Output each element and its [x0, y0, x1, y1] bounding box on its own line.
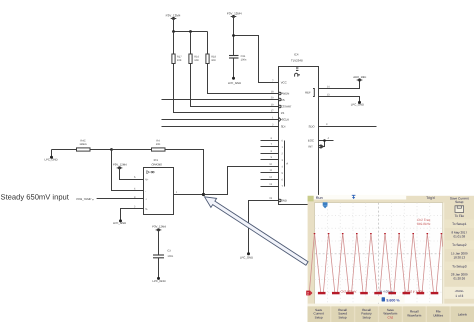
- svg-text:P3V_12M4: P3V_12M4: [166, 14, 181, 18]
- button recall saved setup: [331, 306, 354, 322]
- svg-text:Setup: Setup: [315, 315, 323, 319]
- pin numbers AIN: [269, 137, 272, 186]
- svg-text:VCC: VCC: [281, 80, 287, 84]
- svg-text:Trig'd: Trig'd: [426, 196, 434, 200]
- power ADC_REF: [353, 75, 366, 82]
- oscilloscope screenshot: [306, 195, 474, 322]
- button recall waveform: [403, 306, 426, 322]
- svg-text:Setup: Setup: [362, 315, 370, 319]
- svg-text:LPC_GND: LPC_GND: [240, 256, 253, 260]
- ADC IC4 TLV2548: [279, 52, 321, 204]
- ground LPC_GND at IC4 GND: [240, 252, 253, 259]
- wire GND pin to ground: [249, 201, 279, 254]
- ground LPC_GND at R4C: [44, 150, 57, 162]
- wire R18 to PWDN pin: [208, 64, 279, 94]
- wire CS net: [162, 99, 279, 101]
- svg-text:Steady 650mV input: Steady 650mV input: [1, 193, 70, 202]
- op-amp IC1 OPA340: [134, 158, 178, 215]
- channel 2 marker: [306, 291, 312, 296]
- svg-text:P3V_12M4: P3V_12M4: [152, 224, 166, 228]
- menu to file with icon: [455, 206, 465, 218]
- svg-text:Setup: Setup: [339, 315, 347, 319]
- pin bubble CSTART: [279, 105, 281, 107]
- resistor R17 10K: [172, 32, 182, 64]
- pin bubble PWDN: [279, 92, 281, 94]
- button file utilities: [427, 306, 450, 322]
- trigger level icon: [352, 195, 356, 199]
- svg-text:Waveform: Waveform: [407, 313, 421, 317]
- node junction R4C/R4/inverting input: [110, 148, 113, 151]
- pin bubble GND: [279, 199, 281, 201]
- svg-text:01:20:26: 01:20:26: [453, 276, 465, 280]
- svg-text:IC1: IC1: [154, 158, 159, 162]
- wire op-amp output: [174, 194, 204, 196]
- svg-text:-: -: [145, 189, 146, 193]
- wire R16 to CSTART pin: [191, 64, 279, 107]
- ground LPC_GND at op-amp V-: [113, 219, 126, 225]
- svg-text:V-: V-: [145, 207, 148, 211]
- power P3V_12M4 for C3: [152, 224, 166, 231]
- svg-text:1 of 3: 1 of 3: [455, 294, 463, 298]
- resistor R4C 1MEG: [52, 140, 112, 151]
- grid dotted lines: [315, 203, 443, 306]
- svg-text:10K: 10K: [156, 143, 161, 146]
- svg-text:P3V_12M4: P3V_12M4: [227, 12, 242, 16]
- analog input stub wires AIN0-AIN7: [261, 141, 279, 187]
- REF bracket: [313, 89, 314, 97]
- waveform ch2 triangles: [309, 233, 442, 292]
- svg-text:-more-: -more-: [455, 289, 464, 293]
- svg-text:2: 2: [307, 292, 309, 296]
- wire R17 to FS pin: [174, 64, 279, 113]
- wire VCC branch: [234, 17, 279, 83]
- menu to setup1: [444, 220, 474, 228]
- wire V+ supply: [120, 168, 144, 180]
- svg-text:10K: 10K: [211, 59, 216, 62]
- ground LPC_GND at REF-: [351, 101, 364, 107]
- button save current setup: [308, 306, 331, 322]
- resistor R4 10K: [112, 140, 166, 151]
- svg-text:LPC_GND: LPC_GND: [44, 157, 57, 161]
- svg-text:18:30:13: 18:30:13: [453, 255, 465, 259]
- wire SDI net: [162, 126, 279, 128]
- svg-text:LPC_GND: LPC_GND: [113, 221, 126, 225]
- resistor R16 10K: [189, 32, 200, 64]
- svg-text:C3: C3: [167, 250, 171, 253]
- svg-text:Ch2: Ch2: [388, 315, 394, 319]
- svg-text:100n: 100n: [167, 255, 173, 258]
- svg-text:To Setup2: To Setup2: [452, 243, 467, 247]
- capacitor C21 100n: [229, 55, 247, 61]
- svg-text:9.600 %: 9.600 %: [386, 299, 400, 303]
- menu more pager: [444, 287, 474, 299]
- callout arrow to output node: [205, 197, 309, 265]
- svg-text:ADC_REF: ADC_REF: [353, 75, 366, 79]
- wire feedback to output node: [165, 150, 204, 195]
- wire SDO: [319, 126, 377, 128]
- open-drain triangle INT: [321, 145, 323, 148]
- menu to setup3: [444, 262, 474, 270]
- node junction VCC/C21: [232, 34, 235, 37]
- waveform baseline bars: [314, 233, 443, 294]
- ground LPC_GND below C3: [152, 277, 165, 283]
- svg-text:Ch2 500mV: Ch2 500mV: [341, 290, 357, 294]
- button recall factory setup: [355, 306, 378, 322]
- svg-text:A: A: [286, 162, 288, 166]
- svg-text:SDO: SDO: [309, 125, 316, 129]
- svg-text:Run: Run: [316, 196, 323, 200]
- svg-text:10K: 10K: [194, 59, 199, 62]
- pin bubble CS: [279, 98, 281, 100]
- power P3V_12M4 rail for pull-ups: [166, 14, 181, 20]
- svg-text:LPC_GND: LPC_GND: [152, 279, 165, 283]
- wire power rail: [174, 19, 208, 32]
- svg-text:To File: To File: [455, 214, 465, 218]
- input label PCB_TEMP: [76, 197, 143, 201]
- wire op-amp V-: [121, 209, 144, 221]
- svg-text:SDI: SDI: [281, 125, 286, 129]
- svg-text:849.8kHz: 849.8kHz: [417, 222, 431, 226]
- svg-text:SCLK: SCLK: [282, 118, 289, 122]
- node junction rail-R16: [172, 30, 175, 33]
- power P3V_12M4 for op-amp V+: [113, 163, 127, 170]
- svg-text:Utilities: Utilities: [433, 313, 443, 317]
- svg-text:Labels: Labels: [458, 312, 468, 316]
- percent readout box: [365, 296, 405, 303]
- grid center dashed lines: [315, 203, 443, 306]
- svg-text:V+: V+: [145, 178, 149, 182]
- svg-text:IC4: IC4: [294, 52, 299, 56]
- scope bezel background: [308, 196, 474, 322]
- resistor R18 10K: [206, 32, 217, 64]
- svg-text:10K: 10K: [177, 59, 182, 62]
- button save waveform ch2: [379, 306, 402, 322]
- svg-text:CSTART: CSTART: [281, 105, 292, 109]
- svg-text:01:01:38: 01:01:38: [453, 234, 465, 238]
- wire REF+ to ADC_REF: [319, 80, 360, 89]
- svg-text:PWDN: PWDN: [281, 91, 290, 95]
- wire inverting input: [112, 150, 144, 191]
- scope top bar run button: [308, 196, 314, 202]
- wire output to AIN4: [204, 167, 279, 195]
- pin bubble INT: [319, 145, 321, 147]
- menu to setup2: [444, 241, 474, 249]
- wire C21 to ground: [233, 58, 235, 78]
- svg-text:A Ch2 ∳ 1.30V: A Ch2 ∳ 1.30V: [404, 290, 423, 294]
- svg-text:To Setup1: To Setup1: [452, 222, 467, 226]
- svg-text:EOC: EOC: [308, 139, 314, 143]
- SCLK clock mark: [279, 117, 282, 121]
- graticule: [315, 203, 443, 306]
- svg-text:LPC_GND: LPC_GND: [351, 103, 364, 107]
- svg-text:»: »: [92, 197, 94, 201]
- svg-text:OPA340: OPA340: [152, 162, 163, 166]
- svg-text:TLV2548: TLV2548: [291, 59, 303, 63]
- svg-text:PCB_TEMP: PCB_TEMP: [76, 197, 91, 201]
- bottom button strip: [308, 304, 474, 307]
- svg-text:REF: REF: [305, 91, 311, 95]
- node junction EOC: [323, 139, 326, 142]
- wire SCLK net: [162, 119, 279, 121]
- trigger position marker: [323, 202, 328, 208]
- svg-text:M 4.00ms: M 4.00ms: [380, 290, 394, 294]
- svg-text:FS: FS: [281, 111, 285, 115]
- svg-text:P3V_12M4: P3V_12M4: [113, 163, 127, 167]
- capacitor C3 100n: [153, 230, 174, 278]
- svg-text:1MEG: 1MEG: [79, 143, 86, 146]
- power P3V_12M4 for VCC and C21: [227, 12, 242, 19]
- svg-text:GND: GND: [281, 199, 287, 203]
- node output junction: [202, 193, 205, 196]
- ground LPC_GND below C21: [228, 77, 241, 85]
- svg-text:100n: 100n: [241, 58, 247, 61]
- node junction rail-R17: [189, 30, 192, 33]
- mux bracket A: [284, 141, 286, 187]
- right menu separator: [443, 203, 444, 306]
- svg-text:Setup: Setup: [455, 200, 464, 204]
- wire REF- to ground: [319, 97, 360, 102]
- svg-text:INT: INT: [308, 145, 313, 149]
- svg-text:To Setup3: To Setup3: [452, 264, 467, 268]
- wire EOC open-drain: [319, 141, 334, 147]
- button labels: [451, 306, 474, 322]
- svg-text:LPC_GND: LPC_GND: [228, 81, 241, 85]
